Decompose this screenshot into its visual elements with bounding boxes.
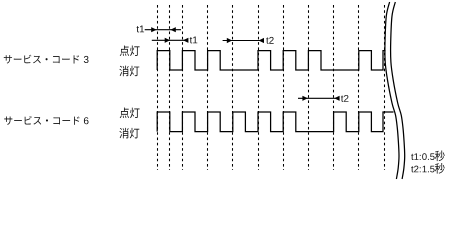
label t1 (row B) (190, 37, 198, 44)
legend t1 value (411, 153, 434, 160)
label 点灯 (code 6 on) (120, 108, 140, 119)
gridline G2 (169, 5, 171, 170)
legend t2 value (411, 166, 434, 173)
dimension arrow t1 (first on-time) (145, 27, 181, 32)
dimension arrow t2 (code 3 pause) (223, 38, 264, 43)
label 消灯 (code 3 off) (119, 66, 139, 77)
label service code 6 (katakana) (4, 116, 79, 125)
waveform service code 3 (157, 51, 385, 70)
gridline G9 (333, 5, 335, 170)
gridline G7 (283, 5, 285, 170)
label 消灯 (code 6 off) (119, 128, 139, 139)
break mark left curve (385, 2, 399, 179)
waveform service code 6 (157, 112, 393, 132)
label t2 (upper) (266, 37, 274, 44)
label digit 6 (84, 117, 89, 124)
gridline G6 (258, 5, 260, 170)
gridline G11 (384, 5, 386, 170)
label t2 (lower) (341, 95, 349, 102)
gridline G8 (308, 5, 310, 170)
dimension arrow t1 (first off-time) (152, 38, 189, 43)
label t1 (row A) (137, 26, 145, 33)
dimension arrow t2 (code 6 pause) (298, 96, 340, 101)
gridline G1 (157, 5, 159, 170)
label service code 3 (katakana) (4, 55, 79, 64)
gridline G3 (182, 5, 184, 170)
label 点灯 (code 3 on) (120, 45, 140, 56)
gridline G10 (358, 5, 360, 170)
gridline G4 (207, 5, 209, 170)
label digit 3 (84, 56, 89, 63)
gridline G5 (232, 5, 234, 170)
break mark right curve (391, 2, 405, 179)
